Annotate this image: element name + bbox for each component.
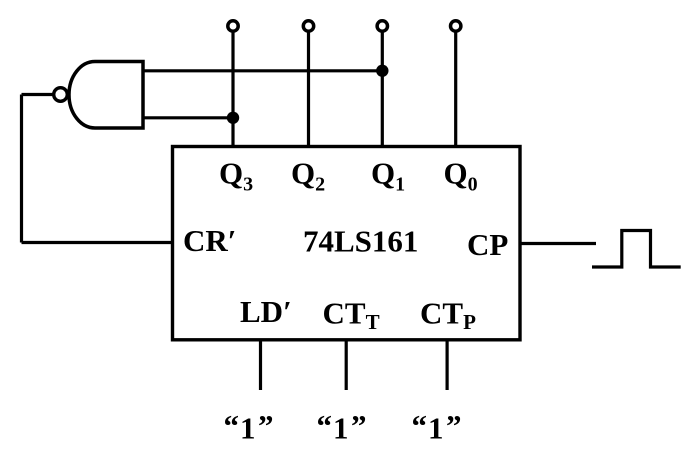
svg-text:“1”: “1” bbox=[317, 408, 367, 446]
svg-text:“1”: “1” bbox=[412, 408, 462, 446]
IC body 74LS161 bbox=[173, 147, 521, 340]
svg-text:LD′: LD′ bbox=[240, 294, 292, 329]
wire CP stub bbox=[520, 242, 596, 245]
wire CTT stub bbox=[345, 342, 348, 391]
svg-text:CP: CP bbox=[467, 227, 508, 262]
wire CTP stub bbox=[446, 342, 449, 391]
wire Q0 vertical bbox=[454, 32, 457, 147]
wire left vertical bbox=[20, 95, 23, 243]
junction on Q1 bbox=[376, 65, 388, 77]
wire NAND output to left bbox=[22, 93, 57, 96]
NAND inversion bubble bbox=[54, 88, 68, 102]
svg-text:“1”: “1” bbox=[224, 408, 274, 446]
wire NAND bottom input from Q3 bbox=[143, 116, 233, 119]
wire Q2 vertical bbox=[307, 32, 310, 147]
svg-text:CR′: CR′ bbox=[183, 223, 237, 258]
wire Q3 vertical bbox=[231, 32, 234, 147]
wire to CR' bbox=[22, 241, 173, 244]
wire LD' stub bbox=[259, 342, 262, 391]
terminal Q2 bbox=[303, 21, 313, 31]
terminal Q0 bbox=[451, 21, 461, 31]
terminal Q1 bbox=[377, 21, 387, 31]
NAND gate G1 body bbox=[69, 62, 143, 129]
svg-text:74LS161: 74LS161 bbox=[303, 224, 418, 259]
wire Q1 vertical bbox=[381, 32, 384, 147]
terminal Q3 bbox=[228, 21, 238, 31]
clock pulse symbol bbox=[592, 231, 681, 268]
junction on Q3 bbox=[227, 112, 239, 124]
wire NAND top input from Q1 bbox=[143, 69, 382, 72]
